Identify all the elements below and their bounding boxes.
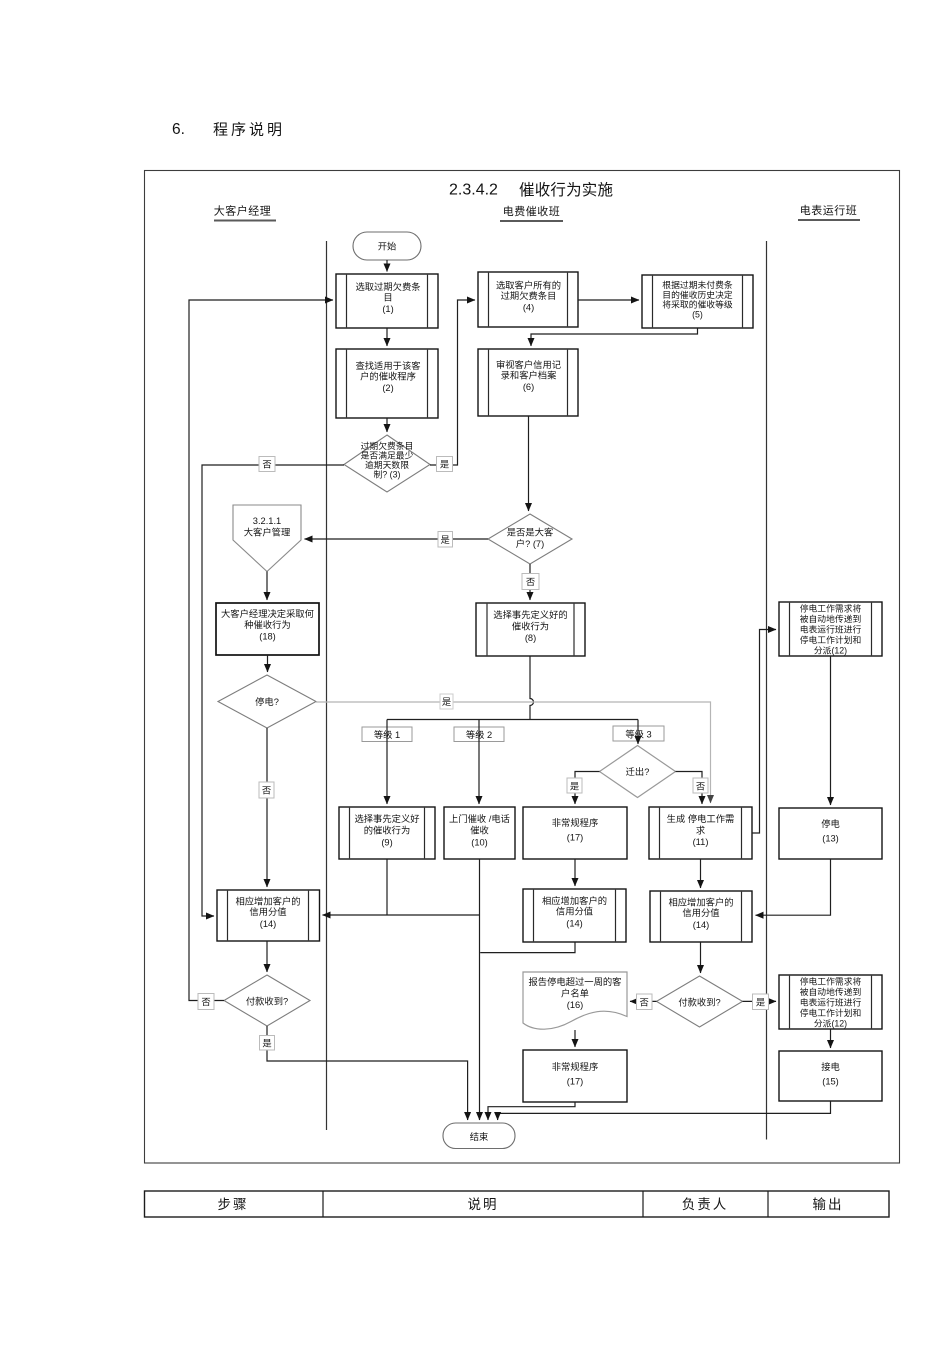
svg-text:结束: 结束	[470, 1131, 489, 1142]
svg-text:(10): (10)	[471, 838, 488, 848]
label 是 (decision3)	[437, 457, 453, 472]
svg-text:过期欠费条目: 过期欠费条目	[501, 290, 557, 301]
svg-text:(6): (6)	[523, 382, 534, 392]
wire 付款收到? left yes to 结束	[267, 1026, 468, 1120]
lane title 电表运行班	[798, 203, 860, 220]
svg-text:否: 否	[201, 997, 210, 1007]
wire box12 upper to box13	[830, 656, 832, 805]
process box (11) 生成 停电工作需求	[649, 807, 752, 859]
summary table	[145, 1191, 890, 1217]
wire box14 left lane to 付款收到? left	[266, 941, 268, 972]
svg-text:(15): (15)	[822, 1077, 839, 1087]
svg-text:逾期天数限: 逾期天数限	[365, 459, 409, 470]
wire decision7 no to box8	[529, 564, 531, 600]
svg-text:选取客户所有的: 选取客户所有的	[496, 280, 561, 291]
svg-text:户? (7): 户? (7)	[516, 538, 544, 549]
off-page reference 3.2.1.1 大客户管理	[233, 505, 301, 572]
wire box10 down to 结束	[479, 859, 481, 1120]
terminator 结束	[443, 1123, 515, 1149]
svg-text:相应增加客户的: 相应增加客户的	[668, 897, 733, 908]
svg-text:(2): (2)	[382, 383, 393, 393]
svg-text:(17): (17)	[567, 1077, 584, 1087]
svg-text:相应增加客户的: 相应增加客户的	[235, 896, 300, 907]
wire box4 to box5	[578, 299, 639, 301]
wire box11 to box12 upper	[752, 630, 776, 834]
svg-text:负责人: 负责人	[682, 1197, 729, 1212]
svg-text:大客户管理: 大客户管理	[244, 527, 291, 538]
wire grade2 branch to box10	[478, 720, 480, 805]
svg-text:催收行为实施: 催收行为实施	[519, 181, 613, 199]
wire box1 to box2	[386, 328, 388, 346]
svg-text:(16): (16)	[567, 1000, 584, 1010]
svg-text:停电工作需求将: 停电工作需求将	[800, 976, 862, 987]
process box (15) 接电	[779, 1051, 882, 1101]
svg-text:目的催收历史决定: 目的催收历史决定	[662, 289, 733, 300]
svg-text:电费催收班: 电费催收班	[503, 204, 561, 218]
label 否 (停电?)	[259, 782, 274, 798]
process box (2) 查找适用于该客户的催收程序	[336, 349, 438, 418]
process box (13) 停电	[779, 808, 882, 859]
svg-text:选取过期欠费条: 选取过期欠费条	[355, 281, 420, 292]
svg-text:被自动地传递到: 被自动地传递到	[800, 613, 862, 624]
wire box6 to decision7	[528, 416, 530, 511]
svg-text:否: 否	[640, 998, 649, 1008]
lane separator right	[766, 241, 768, 1140]
wire 付款收到? middle no to document16	[630, 1000, 657, 1002]
svg-text:户的催收程序: 户的催收程序	[360, 371, 416, 382]
wire 停电? no to box14 left lane	[266, 728, 268, 887]
label 否 (付款收到? left)	[198, 994, 214, 1010]
svg-text:停电: 停电	[821, 818, 840, 829]
svg-text:否: 否	[262, 460, 271, 470]
svg-text:是否是大客: 是否是大客	[507, 527, 554, 538]
wire box17 upper to box14 middle-left	[574, 859, 576, 886]
wire box11 to box14 middle-right	[700, 859, 702, 888]
svg-text:将采取的催收等级: 将采取的催收等级	[662, 299, 733, 310]
process box (18) 大客户经理决定采取何种催收行为	[216, 603, 319, 655]
svg-text:否: 否	[526, 577, 535, 587]
wire 付款收到? middle yes to box12 lower	[743, 1000, 777, 1002]
svg-text:催收行为: 催收行为	[512, 621, 549, 632]
label 是 (迁出?)	[567, 778, 582, 793]
svg-text:程序说明: 程序说明	[213, 122, 285, 139]
label 否 (付款收到? middle)	[637, 994, 653, 1010]
process box (4) 选取客户所有的过期欠费条目	[478, 272, 578, 327]
svg-text:否: 否	[696, 782, 705, 792]
svg-text:非常规程序: 非常规程序	[552, 1061, 599, 1072]
svg-text:迁出?: 迁出?	[626, 766, 650, 777]
wire off-page reference to box18	[266, 572, 268, 601]
svg-text:大客户经理决定采取何: 大客户经理决定采取何	[221, 608, 314, 619]
wire box13 to box14 middle-right	[756, 859, 831, 915]
svg-text:报告停电超过一周的客: 报告停电超过一周的客	[529, 976, 622, 987]
svg-text:户名单: 户名单	[561, 988, 589, 999]
process box (14) 相应增加客户的信用分值 (left lane)	[217, 890, 320, 941]
svg-text:选择事先定义好: 选择事先定义好	[354, 813, 419, 824]
chart title 2.3.4.2 催收行为实施	[449, 181, 613, 199]
lane title 电费催收班	[500, 204, 563, 221]
svg-text:电表运行班进行: 电表运行班进行	[800, 624, 862, 635]
wire 开始 to box1	[386, 260, 388, 272]
process box (1) 选取过期欠费条目	[336, 274, 438, 328]
svg-text:信用分值: 信用分值	[556, 906, 593, 917]
process box (12) 停电工作需求将被自动地传递到电表运行班进行停电工作计划和分派 (upper)	[779, 602, 882, 656]
svg-text:(11): (11)	[693, 837, 709, 847]
svg-text:(9): (9)	[381, 838, 392, 848]
wire box8 to grade split	[530, 656, 534, 720]
svg-text:录和客户档案: 录和客户档案	[501, 370, 557, 381]
svg-text:付款收到?: 付款收到?	[678, 997, 720, 1008]
svg-text:生成 停电工作需: 生成 停电工作需	[667, 813, 735, 824]
svg-text:是: 是	[570, 782, 579, 792]
process box (14) 相应增加客户的信用分值 (middle-right)	[650, 891, 752, 942]
svg-text:(1): (1)	[382, 304, 393, 314]
decision 迁出?	[600, 746, 676, 798]
process box (6) 审视客户信用记录和客户档案	[478, 349, 578, 416]
svg-text:停电工作计划和: 停电工作计划和	[800, 634, 862, 645]
svg-text:(13): (13)	[822, 834, 839, 844]
lane title 大客户经理	[214, 204, 276, 221]
wire box9 down to junction	[386, 859, 388, 915]
wire 停电? yes (gray) to box11	[316, 702, 711, 803]
label 是 (停电? gray branch)	[440, 694, 453, 709]
svg-text:选择事先定义好的: 选择事先定义好的	[493, 609, 567, 620]
svg-text:电表运行班进行: 电表运行班进行	[800, 997, 862, 1008]
process box (8) 选择事先定义好的催收行为	[476, 603, 585, 656]
svg-text:(5): (5)	[692, 309, 703, 319]
decision (3) 过期欠费条目是否满足最少逾期天数限制?	[344, 435, 430, 492]
decision 付款收到? (left lane)	[224, 975, 310, 1026]
svg-text:停电工作计划和: 停电工作计划和	[800, 1007, 862, 1018]
lane separator left	[326, 241, 328, 1130]
svg-text:非常规程序: 非常规程序	[552, 817, 599, 828]
decision 付款收到? (middle lane)	[657, 976, 743, 1027]
decision 停电?	[218, 675, 316, 728]
wire decision7 yes to off-page reference	[305, 538, 489, 540]
label 是 (付款收到? left)	[260, 1036, 275, 1051]
wire box12 lower to box15	[830, 1029, 832, 1048]
svg-text:(18): (18)	[259, 632, 276, 642]
wire box18 to decision 停电?	[267, 655, 269, 672]
svg-text:信用分值: 信用分值	[249, 906, 286, 917]
svg-text:信用分值: 信用分值	[682, 907, 719, 918]
svg-text:是: 是	[440, 460, 449, 470]
terminator 开始	[353, 232, 421, 260]
wire 付款收到? left no loop to box1	[189, 300, 333, 1001]
label 是 (decision7)	[438, 532, 453, 548]
svg-text:2.3.4.2: 2.3.4.2	[449, 182, 498, 199]
svg-text:(14): (14)	[693, 920, 710, 930]
svg-text:是否满足最少: 是否满足最少	[361, 451, 414, 461]
svg-text:说明: 说明	[468, 1197, 499, 1212]
svg-text:种催收行为: 种催收行为	[244, 619, 291, 630]
svg-text:3.2.1.1: 3.2.1.1	[253, 516, 281, 526]
label 否 (迁出?)	[693, 778, 708, 793]
decision (7) 是否是大客户?	[488, 514, 572, 564]
process box (5) 根据过期未付费条目的催收历史决定将采取的催收等级	[642, 275, 753, 328]
document (16) 报告停电超过一周的客户名单	[523, 972, 627, 1029]
svg-text:分派(12): 分派(12)	[814, 646, 847, 656]
wire box17 lower to 结束	[488, 1102, 575, 1120]
label 是 (付款收到? middle)	[753, 994, 769, 1010]
process box (9) 选择事先定义好的催收行为	[339, 807, 435, 859]
process box (10) 上门催收/电话催收	[444, 807, 515, 859]
svg-text:付款收到?: 付款收到?	[246, 996, 288, 1007]
svg-text:停电?: 停电?	[255, 696, 279, 707]
svg-text:(14): (14)	[260, 919, 277, 929]
grade label 等级 3	[613, 726, 664, 741]
svg-text:大客户经理: 大客户经理	[214, 204, 272, 218]
svg-text:是: 是	[756, 998, 765, 1008]
wire box14 middle-left to 结束 vertical	[480, 942, 575, 953]
section heading 6. 程序说明	[172, 121, 285, 139]
wire grade split bar	[387, 719, 638, 721]
wire junction to box14 left lane right edge	[323, 914, 480, 916]
svg-text:步骤: 步骤	[218, 1197, 249, 1212]
svg-text:目: 目	[383, 293, 392, 303]
svg-text:查找适用于该客: 查找适用于该客	[355, 360, 420, 371]
wire box2 to decision3	[386, 418, 388, 432]
svg-text:电表运行班: 电表运行班	[800, 203, 858, 217]
svg-text:审视客户信用记: 审视客户信用记	[496, 359, 561, 370]
svg-text:(17): (17)	[567, 833, 584, 843]
wire grade3 branch to decision 迁出?	[637, 720, 639, 745]
wire document16 to box17 lower	[574, 1030, 576, 1047]
grade label 等级 2	[454, 727, 504, 742]
process box (17) 非常规程序 (upper middle)	[523, 807, 627, 859]
wire 迁出? no to box11	[676, 772, 703, 805]
wire box14 middle-right to 付款收到? middle	[700, 942, 702, 973]
svg-text:相应增加客户的: 相应增加客户的	[542, 895, 607, 906]
process box (12) 停电工作需求将被自动地传递到电表运行班进行停电工作计划和分派 (lower)	[779, 975, 882, 1029]
wire box15 to 结束	[498, 1101, 831, 1120]
svg-text:制? (3): 制? (3)	[374, 469, 401, 480]
process box (14) 相应增加客户的信用分值 (middle-left)	[523, 889, 626, 942]
wire grade1 branch to box9	[386, 720, 388, 805]
svg-text:根据过期未付费条: 根据过期未付费条	[662, 279, 733, 290]
svg-text:(4): (4)	[523, 303, 534, 313]
svg-text:分派(12): 分派(12)	[814, 1019, 847, 1029]
svg-text:被自动地传递到: 被自动地传递到	[800, 986, 862, 997]
svg-text:上门催收 /电话: 上门催收 /电话	[449, 813, 510, 824]
wire decision3 no to box14 left lane	[202, 465, 344, 916]
svg-text:停电工作需求将: 停电工作需求将	[800, 603, 862, 614]
svg-text:的催收行为: 的催收行为	[364, 825, 411, 836]
svg-text:接电: 接电	[821, 1061, 840, 1072]
wire box5 to box6	[531, 328, 698, 346]
svg-text:输出: 输出	[813, 1197, 844, 1212]
flowchart outer frame	[145, 171, 900, 1164]
label 否 (decision7)	[522, 574, 539, 590]
svg-text:过期欠费条目: 过期欠费条目	[361, 440, 414, 451]
grade label 等级 1	[362, 727, 412, 742]
svg-text:是: 是	[442, 697, 451, 707]
process box (17) 非常规程序 (lower middle)	[523, 1050, 627, 1102]
svg-text:开始: 开始	[378, 241, 397, 252]
svg-text:求: 求	[696, 825, 705, 836]
svg-text:6.: 6.	[172, 121, 185, 138]
svg-text:是: 是	[262, 1039, 271, 1049]
svg-text:催收: 催收	[470, 825, 489, 836]
svg-text:否: 否	[262, 786, 271, 796]
wire 迁出? yes to box17 upper	[575, 772, 600, 805]
label 否 (decision3)	[259, 457, 275, 472]
svg-text:是: 是	[441, 535, 450, 545]
svg-text:(14): (14)	[566, 919, 583, 929]
wire decision3 yes to box4	[430, 300, 475, 465]
svg-text:(8): (8)	[525, 633, 536, 643]
